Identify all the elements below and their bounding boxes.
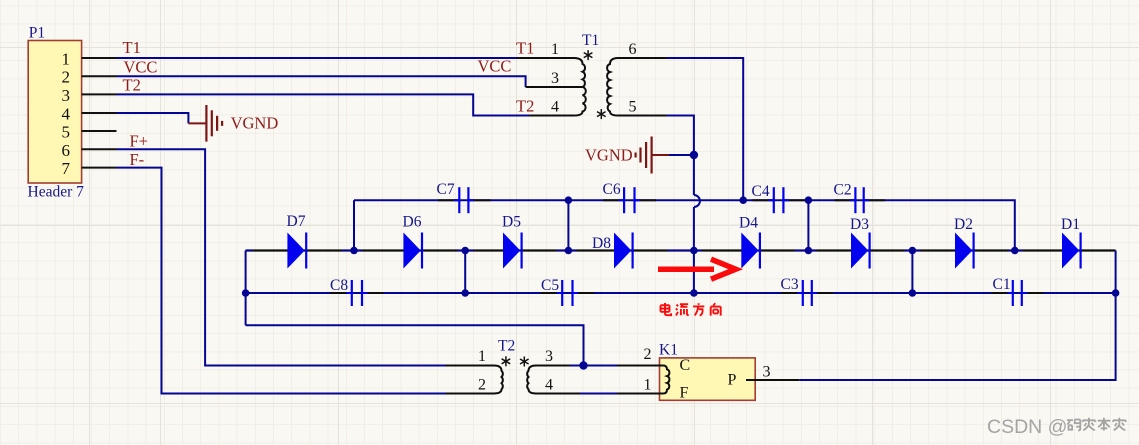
wire net F- from P1.7 to T2.2 — [117, 168, 446, 394]
wire net T2 from P1.3 to T1.4 — [117, 94, 530, 115]
K1 pin 2 lead — [644, 346, 661, 366]
wire T1.6 down to top cap row — [667, 58, 744, 200]
vertical wire junction A (x354) — [353, 200, 355, 250]
wire T2.3 to K1.2 — [563, 365, 661, 367]
svg-text:K1: K1 — [659, 342, 678, 359]
svg-text:6: 6 — [62, 141, 71, 160]
transformer T1 primary winding — [517, 58, 586, 116]
svg-text:3: 3 — [62, 86, 71, 105]
svg-text:C: C — [680, 357, 691, 374]
svg-text:P1: P1 — [29, 25, 45, 42]
T2 polarity star right — [520, 357, 529, 367]
svg-text:1: 1 — [62, 50, 71, 69]
svg-text:4: 4 — [62, 104, 71, 123]
svg-text:D5: D5 — [502, 214, 521, 231]
transformer T2 secondary winding — [527, 366, 563, 394]
capacitor C5 — [562, 280, 572, 306]
K1 pin 1 lead — [644, 377, 661, 394]
svg-text:F-: F- — [130, 150, 145, 169]
lower horizontal wire to T2.3 node — [246, 325, 584, 365]
red current direction arrow — [658, 259, 736, 279]
power symbol VGND (middle) — [585, 137, 694, 174]
svg-text:C4: C4 — [752, 183, 770, 200]
P1 pin 2 — [62, 68, 117, 87]
capacitor C2 — [855, 187, 863, 213]
P1 pin 6 — [62, 141, 117, 160]
diode row base wire — [246, 249, 1116, 251]
wire P1.4 to VGND — [117, 113, 189, 123]
svg-text:D2: D2 — [954, 216, 973, 233]
P1 pin 7 — [62, 159, 117, 178]
vertical wire junction C (x568) — [567, 200, 569, 250]
svg-text:T1: T1 — [123, 38, 141, 57]
diode D3 — [851, 233, 870, 269]
svg-text:2: 2 — [644, 346, 652, 363]
svg-text:VGND: VGND — [231, 113, 279, 132]
vertical wire junction E (x912) — [911, 251, 913, 294]
svg-text:3: 3 — [763, 364, 771, 381]
svg-text:7: 7 — [62, 159, 71, 178]
P1 pin 4 — [62, 104, 117, 123]
svg-text:VGND: VGND — [585, 145, 633, 164]
diode D8 — [614, 233, 633, 269]
relay K1 body — [660, 358, 756, 400]
K1 coil — [661, 366, 670, 394]
svg-text:5: 5 — [629, 99, 637, 116]
svg-text:C2: C2 — [834, 182, 852, 199]
svg-text:3: 3 — [551, 70, 559, 87]
svg-text:Header 7: Header 7 — [28, 184, 85, 201]
capacitor C4 — [774, 187, 784, 213]
svg-text:CSDN @: CSDN @ — [987, 416, 1067, 438]
svg-text:T2: T2 — [498, 338, 515, 355]
wire net VCC from P1.2 to T1.3 — [117, 76, 526, 87]
P1 pin 3 — [62, 86, 117, 105]
red annotation text 电流方向 — [661, 303, 721, 316]
connector P1 body — [28, 41, 81, 184]
svg-text:1: 1 — [644, 377, 652, 394]
svg-text:C6: C6 — [603, 181, 621, 198]
C8 pin leads — [330, 292, 383, 294]
svg-text:2: 2 — [478, 377, 486, 394]
svg-text:4: 4 — [551, 99, 559, 116]
svg-text:P: P — [728, 372, 737, 389]
svg-text:F: F — [680, 385, 689, 402]
svg-text:VCC: VCC — [478, 57, 512, 76]
left ladder vertical wire — [245, 251, 247, 326]
power symbol VGND (left) — [188, 105, 278, 142]
svg-text:D4: D4 — [739, 215, 758, 232]
svg-text:C5: C5 — [541, 277, 559, 294]
T1 polarity dot star top — [584, 50, 593, 60]
svg-text:6: 6 — [629, 41, 637, 58]
transformer T1 secondary winding — [607, 58, 666, 116]
svg-text:4: 4 — [545, 377, 553, 394]
capacitor C3 — [803, 280, 812, 306]
capacitor C8 — [352, 280, 362, 306]
transformer T2 primary winding — [446, 366, 503, 394]
vertical wire junction B (x465) — [464, 251, 466, 294]
wire net F+ from P1.6 to T2.1 — [117, 149, 446, 365]
wire T2.4 to K1.1 — [563, 393, 661, 395]
T1 polarity dot star bottom — [597, 109, 606, 119]
svg-text:T2: T2 — [123, 76, 141, 95]
svg-text:T1: T1 — [582, 32, 599, 49]
right ladder vertical wire to K1.3 — [799, 251, 1115, 381]
C6 pin leads — [603, 199, 656, 201]
svg-text:D8: D8 — [592, 235, 611, 252]
watermark CSDN @码农本农 — [987, 416, 1126, 438]
diode D6 — [403, 233, 422, 269]
diode row blue wire segments near junctions — [246, 250, 1023, 252]
top capacitor row wire — [354, 200, 1015, 250]
diode D4 — [741, 233, 760, 269]
capacitor pin stubs (blue) — [346, 200, 1027, 293]
P1 pin 5 — [62, 123, 117, 142]
vertical wire junction D (x808) — [807, 200, 809, 250]
svg-text:C8: C8 — [330, 277, 348, 294]
wire T1.5 down through VGND node (with hop over top cap row) — [667, 116, 700, 294]
svg-text:2: 2 — [62, 68, 71, 87]
K1 pin 3 lead — [746, 364, 799, 381]
diode D7 — [287, 233, 306, 269]
diode D2 — [955, 233, 974, 269]
svg-text:VCC: VCC — [124, 57, 158, 76]
diode D5 — [503, 233, 522, 269]
P1 pin 1 — [62, 50, 117, 69]
svg-text:3: 3 — [545, 348, 553, 365]
svg-text:5: 5 — [62, 123, 71, 142]
svg-text:C3: C3 — [781, 276, 799, 293]
C3 pin leads — [781, 292, 833, 294]
capacitor C6 — [624, 187, 634, 213]
capacitor C1 — [1013, 280, 1022, 306]
C2 pin leads — [835, 199, 886, 201]
wire net T1 from P1.1 to T1.1 — [117, 57, 518, 59]
svg-text:D6: D6 — [403, 214, 422, 231]
C4 pin leads — [753, 199, 806, 201]
svg-text:C1: C1 — [993, 276, 1011, 293]
T2 polarity star left — [502, 356, 511, 366]
bottom capacitor row wire — [246, 292, 1116, 294]
svg-text:1: 1 — [551, 41, 559, 58]
svg-text:T2: T2 — [516, 97, 534, 116]
capacitor C7 — [459, 187, 468, 213]
svg-text:C7: C7 — [437, 181, 455, 198]
svg-text:T1: T1 — [516, 39, 534, 58]
C5 pin leads — [541, 292, 594, 294]
C1 pin leads — [991, 292, 1043, 294]
svg-text:D7: D7 — [287, 213, 306, 230]
svg-text:D3: D3 — [850, 216, 869, 233]
svg-text:D1: D1 — [1061, 216, 1080, 233]
diode D1 — [1062, 233, 1081, 269]
C7 pin leads — [438, 199, 491, 201]
svg-text:F+: F+ — [130, 131, 148, 150]
svg-text:1: 1 — [478, 348, 486, 365]
